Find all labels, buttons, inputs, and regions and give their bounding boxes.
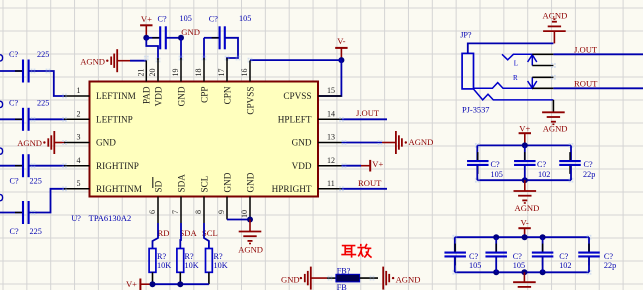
capacitor C? 105 (bank1) <box>467 145 503 180</box>
ground AGND (top right) <box>543 11 568 44</box>
svg-text:2: 2 <box>77 110 81 119</box>
svg-text:J.OUT: J.OUT <box>356 108 380 118</box>
designator U? TPA6130A2 <box>71 214 131 223</box>
pin 10 GND <box>240 172 255 219</box>
ground AGND (ferrite bead right) <box>383 267 420 290</box>
IC U? TPA6130A2 body <box>90 82 319 197</box>
svg-text:C?: C? <box>9 50 18 59</box>
svg-text:RIGHTINM: RIGHTINM <box>96 184 142 194</box>
capacitor C? 102 (bank1) <box>514 145 550 180</box>
net label RD <box>158 228 170 238</box>
svg-text:8: 8 <box>194 210 203 214</box>
ground GND (ferrite bead left) <box>281 267 327 290</box>
svg-text:GND: GND <box>292 138 312 148</box>
svg-text:225: 225 <box>37 99 49 108</box>
svg-text:102: 102 <box>538 170 550 179</box>
svg-text:16: 16 <box>240 69 249 77</box>
pin 21 PAD <box>137 61 152 105</box>
svg-text:J.OUT: J.OUT <box>574 45 598 55</box>
svg-text:SCL: SCL <box>199 175 209 192</box>
svg-text:C?: C? <box>537 160 546 169</box>
svg-text:14: 14 <box>327 110 335 119</box>
net label SDA <box>180 228 198 238</box>
svg-text:AGND: AGND <box>409 137 434 147</box>
wire cap bank1 rails <box>475 142 574 183</box>
svg-text:R?: R? <box>157 252 166 261</box>
svg-text:AGND: AGND <box>238 244 263 254</box>
svg-text:U?: U? <box>71 214 81 223</box>
pin jack ring stub / net ROUT <box>474 78 643 88</box>
svg-text:RD: RD <box>158 228 170 238</box>
svg-text:13: 13 <box>327 133 335 142</box>
svg-text:17: 17 <box>217 69 226 77</box>
svg-text:FB?: FB? <box>337 266 351 275</box>
capacitor C? 105 (CPP-CPN flying cap) <box>144 14 251 62</box>
svg-text:10K: 10K <box>214 261 228 270</box>
svg-text:AGND: AGND <box>17 138 42 148</box>
pin 2 LEFTINP <box>62 110 133 125</box>
svg-text:C?: C? <box>209 15 218 24</box>
pin 18 CPP <box>194 58 209 103</box>
svg-text:CPN: CPN <box>222 86 232 104</box>
svg-text:AGND: AGND <box>80 56 105 66</box>
svg-text:SD: SD <box>153 180 163 192</box>
svg-text:9: 9 <box>217 210 226 214</box>
svg-text:12: 12 <box>327 156 335 165</box>
jack R contact <box>513 74 537 88</box>
svg-text:18: 18 <box>194 69 203 77</box>
pin jack tip stub / net J.OUT <box>532 45 643 55</box>
svg-text:19: 19 <box>171 69 180 77</box>
title text (Chinese: headphone amp) <box>341 244 371 258</box>
pin jack switch stub (L) <box>532 63 556 68</box>
capacitor C? 102 (bank2) <box>532 237 572 272</box>
svg-text:LEFTINP: LEFTINP <box>96 115 133 125</box>
svg-text:HPLEFT: HPLEFT <box>278 115 312 125</box>
svg-text:22p: 22p <box>583 170 595 179</box>
svg-text:LEFTINM: LEFTINM <box>96 91 136 101</box>
ferrite bead FB? <box>327 266 378 292</box>
wire jack sleeve to AGND <box>468 43 554 53</box>
ground AGND (below jack) <box>542 112 567 133</box>
svg-text:AGND: AGND <box>543 124 568 134</box>
svg-text:105: 105 <box>239 14 251 23</box>
power V+ (top) <box>140 14 152 38</box>
pin 11 HPRIGHT <box>272 179 342 194</box>
svg-text:V-: V- <box>520 218 528 228</box>
svg-text:R?: R? <box>214 252 223 261</box>
svg-text:20: 20 <box>148 69 157 77</box>
pin 8 SCL <box>194 175 209 223</box>
svg-text:6: 6 <box>148 210 157 214</box>
ground AGND (cap bank 1) <box>514 180 540 213</box>
svg-text:225: 225 <box>30 177 42 186</box>
svg-text:RIGHTINP: RIGHTINP <box>96 161 139 171</box>
connector JP? PJ-3537 body <box>460 30 489 114</box>
svg-text:15: 15 <box>327 86 335 95</box>
capacitor C? 105 (bank2 a) <box>444 237 481 272</box>
pin jack switch stub (R) <box>532 75 556 80</box>
svg-text:22p: 22p <box>604 261 616 270</box>
wire resistor bottom rail <box>150 281 209 287</box>
power GND label (top) <box>178 27 200 60</box>
svg-text:GND: GND <box>181 27 200 37</box>
net ROUT (pin11) <box>339 178 387 191</box>
junction at V+ / pin20 <box>143 35 158 60</box>
svg-text:7: 7 <box>171 210 180 214</box>
svg-text:SDA: SDA <box>180 228 198 238</box>
resistor R? 10K (col 181.0) <box>177 223 199 284</box>
net label stub at left edge (row5) <box>0 194 3 200</box>
svg-text:VDD: VDD <box>292 161 312 171</box>
svg-text:GND: GND <box>245 172 255 192</box>
ground AGND (pin10) <box>238 220 263 255</box>
svg-text:10: 10 <box>240 210 249 218</box>
svg-text:V+: V+ <box>372 159 383 169</box>
svg-text:ROUT: ROUT <box>358 178 382 188</box>
pin 14 HPLEFT <box>278 110 342 125</box>
svg-text:GND: GND <box>222 172 232 192</box>
wire pin9-pin10 junction <box>227 217 253 223</box>
svg-text:C?: C? <box>10 177 19 186</box>
svg-text:VDD: VDD <box>153 86 163 106</box>
power V- (cap bank 2) <box>518 218 530 238</box>
svg-text:TPA6130A2: TPA6130A2 <box>89 214 132 223</box>
svg-text:11: 11 <box>327 179 335 188</box>
ground AGND (cap bank 2, bottom edge) <box>513 272 536 294</box>
svg-text:GND: GND <box>176 86 186 106</box>
net label stub at left edge (row2) <box>0 101 3 107</box>
svg-text:1: 1 <box>77 86 81 95</box>
wire cap bank2 rails <box>452 234 591 275</box>
svg-text:V+: V+ <box>519 124 530 134</box>
svg-text:AGND: AGND <box>515 203 540 213</box>
svg-text:ROUT: ROUT <box>574 78 598 88</box>
capacitor C? 22p (bank1) <box>559 145 595 180</box>
svg-text:GND: GND <box>96 138 116 148</box>
pin 15 CPVSS <box>283 86 341 101</box>
capacitor C? 225 (left input 4) <box>0 189 66 236</box>
svg-text:C?: C? <box>10 227 19 236</box>
capacitor C? 225 (left input 2) <box>0 99 66 131</box>
svg-text:105: 105 <box>513 261 525 270</box>
svg-text:CPP: CPP <box>199 87 209 103</box>
net label stub at left edge (row1) <box>0 55 3 61</box>
svg-text:V-: V- <box>337 36 345 46</box>
pin 9 GND <box>217 172 232 219</box>
pin 20 VDD <box>148 58 163 106</box>
ground AGND (pin3 left) <box>17 131 66 154</box>
capacitor C? 105 (bank2 b) <box>485 237 525 272</box>
pin 13 GND <box>292 133 342 148</box>
svg-text:105: 105 <box>180 14 192 23</box>
svg-text:3: 3 <box>77 133 81 142</box>
power V+ (cap bank 1) <box>519 124 531 146</box>
svg-text:SDA: SDA <box>176 174 186 193</box>
svg-text:102: 102 <box>559 261 571 270</box>
pin 16 CPVSS <box>240 61 255 115</box>
net J.OUT (pin14) <box>339 108 387 122</box>
svg-text:5: 5 <box>77 179 81 188</box>
net label stub at left edge (row4) <box>0 148 3 154</box>
net label SCL <box>202 228 218 238</box>
junction / wires V- to pin16 and pin15 <box>248 57 345 96</box>
power V+ (resistor rail) <box>126 279 152 291</box>
svg-text:PJ-3537: PJ-3537 <box>462 106 490 115</box>
capacitor C? 105 (VDD bypass) <box>146 14 191 49</box>
capacitor C? 22p (bank2) <box>578 237 616 272</box>
ground AGND (pin13) <box>342 131 434 154</box>
svg-text:JP?: JP? <box>460 30 472 39</box>
pin 5 RIGHTINM <box>62 179 142 194</box>
pin 3 GND <box>62 133 116 148</box>
svg-text:PAD: PAD <box>142 86 152 104</box>
svg-text:225: 225 <box>37 50 49 59</box>
svg-text:C?: C? <box>491 160 500 169</box>
power V- (top right) <box>335 36 347 60</box>
pin 4 RIGHTINP <box>62 156 139 171</box>
svg-text:4: 4 <box>77 156 81 165</box>
svg-text:V+: V+ <box>126 279 137 289</box>
pin 7 SDA <box>171 174 186 223</box>
svg-text:105: 105 <box>469 261 481 270</box>
svg-text:C?: C? <box>158 15 167 24</box>
svg-text:HPRIGHT: HPRIGHT <box>272 184 312 194</box>
pin 6 SD <box>148 177 163 223</box>
svg-text:GND: GND <box>281 274 300 284</box>
svg-text:R?: R? <box>185 252 194 261</box>
jack L contact <box>502 54 537 67</box>
pin 1 LEFTINM <box>62 86 136 101</box>
svg-text:FB: FB <box>337 283 348 290</box>
resistor R? 10K (col 158.0) <box>149 223 171 284</box>
ground AGND (top left, pin21) <box>80 49 146 72</box>
power V+ (pin12) <box>342 159 384 172</box>
svg-text:R: R <box>513 74 518 82</box>
capacitor C? 225 (left input 3) <box>0 154 66 185</box>
svg-text:C?: C? <box>9 99 18 108</box>
svg-text:CPVSS: CPVSS <box>245 86 255 114</box>
svg-text:105: 105 <box>491 170 503 179</box>
svg-text:10K: 10K <box>185 261 199 270</box>
svg-text:225: 225 <box>30 227 42 236</box>
svg-text:C?: C? <box>584 160 593 169</box>
svg-text:10K: 10K <box>157 261 171 270</box>
svg-text:V+: V+ <box>141 14 152 24</box>
jack sleeve 2 contact to AGND <box>474 89 554 112</box>
svg-text:21: 21 <box>137 69 146 77</box>
pin 12 VDD <box>292 156 342 171</box>
pin 17 CPN <box>217 58 232 104</box>
resistor R? 10K (col 204.0) <box>204 223 228 284</box>
capacitor C? 225 (left input 1) <box>0 50 66 96</box>
pin 19 GND <box>171 58 186 106</box>
svg-text:AGND: AGND <box>396 274 421 284</box>
svg-text:L: L <box>514 59 518 67</box>
svg-text:CPVSS: CPVSS <box>283 91 311 101</box>
